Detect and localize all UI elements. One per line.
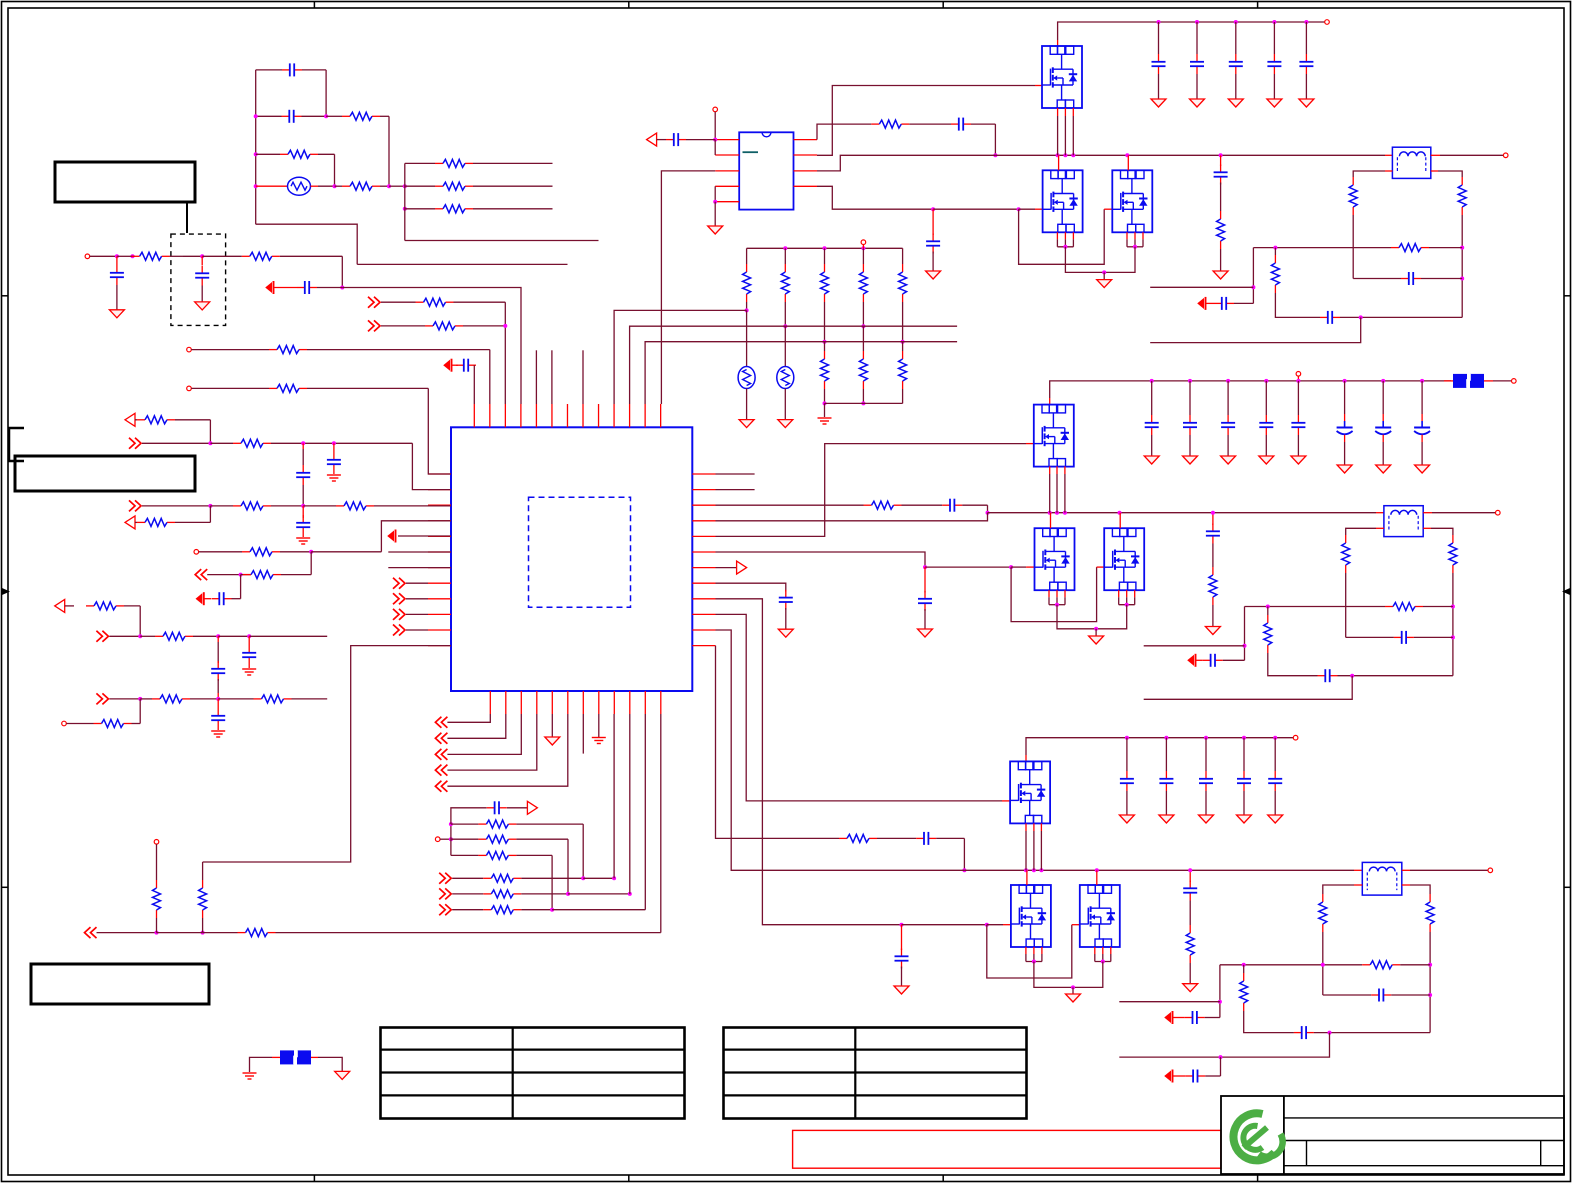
capacitor C gate3 + ground (901, 925, 903, 950)
resistor R s2 (451, 838, 479, 840)
phase2 fb tap down (1244, 607, 1246, 661)
dangling IC right rows 1-2 (716, 473, 755, 475)
phase3 fb tap down (1219, 965, 1221, 1018)
capacitor C a3 + ground (302, 506, 304, 518)
phase1 fb tap down (1252, 248, 1254, 304)
phase2 snubber chain (1212, 513, 1214, 525)
phase2 source bundles (1048, 590, 1050, 597)
phase1 snubber chain (1220, 155, 1222, 166)
port circle rail2 (1296, 372, 1301, 377)
resistor R b3 (152, 698, 160, 700)
connector chevron b3 (96, 693, 108, 704)
col2 thermistor + ground (784, 302, 786, 326)
wire pin6 to chevron (435, 781, 447, 792)
MOSFET module Q3 low (1112, 170, 1152, 232)
fuse F1 (1444, 380, 1453, 382)
wire to IC pin3 (504, 302, 506, 404)
capacitor C a1 (302, 443, 304, 449)
phase2 source return (1057, 605, 1127, 629)
phase1 top rail (1058, 22, 1325, 40)
phase3 gate link (987, 925, 1072, 978)
capacitor C b2 (217, 636, 219, 642)
resistor R b5 (94, 723, 102, 725)
capacitor C in1 (116, 256, 118, 265)
inductor L2 (1376, 512, 1384, 514)
divider resistors top row (746, 248, 748, 264)
chevron row A + resistor (439, 873, 451, 884)
resistor R osc out2 (405, 185, 435, 187)
wire to IC pin2 (489, 350, 491, 404)
connector chevron B (368, 320, 380, 331)
phase2 SW rail (988, 512, 1377, 514)
phase3 fb resistor mid (1243, 965, 1245, 973)
phase1 fb cap mid (1320, 316, 1328, 318)
IC pin stubs right (692, 473, 715, 475)
phase1 fb resistor mid (1274, 248, 1276, 255)
phase2 stub line A (1144, 645, 1245, 647)
input port J-in (85, 254, 90, 259)
phase1 high-side source stubs (1057, 108, 1059, 116)
fuse F2 bottom (243, 1072, 257, 1074)
resistor R p2 (269, 387, 277, 389)
wire to IC bottom pin12 (660, 714, 662, 933)
capacitor C drv + arrow (647, 133, 657, 146)
MOSFET module Q9 low (1080, 885, 1120, 947)
phase1 boot RC (817, 124, 871, 140)
port circle Pb (62, 721, 67, 726)
connector chevron in3 (129, 500, 141, 511)
phase2 bulk caps (1343, 379, 1347, 383)
wire L3 to IC pin13 (661, 171, 715, 404)
capacitor C sense-top + arrow (451, 808, 487, 824)
phase2 low module top stubs (1050, 513, 1052, 529)
phase1 SW rail (817, 155, 995, 171)
phase2 feedback left tap (1376, 527, 1384, 529)
resistor R chevB (425, 325, 433, 327)
IC pin stubs left (428, 473, 451, 475)
sense tie + capacitor C sense (266, 283, 272, 292)
dashed highlight box (171, 234, 226, 325)
ground (109, 310, 124, 318)
right edge fold arrow (1562, 588, 1570, 595)
phase1 fb resistor row (1253, 247, 1391, 249)
phase1 stub line B (1150, 317, 1361, 342)
IC bottom wires to left chevrons (435, 717, 447, 728)
driver pin stubs right (794, 139, 818, 141)
tie + capacitor C a4 (196, 594, 202, 603)
phase3 stub line A (1119, 1001, 1220, 1003)
capacitor C osc1 (282, 69, 290, 71)
IC thermal pad (dashed) (529, 497, 631, 607)
phase3 fb cap mid (1294, 1032, 1302, 1034)
gate driver U2 (739, 132, 793, 209)
phase2 tie cap A (1188, 656, 1194, 665)
earth on pin8 (598, 714, 600, 738)
phase2 LO gate wire (716, 552, 926, 567)
MOSFET module Q7 high (1010, 761, 1050, 823)
phase1 stub line A (1150, 286, 1253, 288)
port circle P1 (187, 347, 192, 352)
phase1 gate link (1019, 209, 1105, 264)
resistor R a1 (137, 419, 145, 421)
connector chevron in2 (129, 438, 141, 449)
ground (195, 302, 210, 310)
resistor R a6 (242, 551, 250, 553)
phase1 HO gate wire (817, 86, 1035, 156)
inductor L1 (1385, 154, 1392, 156)
phase1 source return (1065, 247, 1135, 273)
wire input to sense line (341, 256, 343, 287)
driver label mark (743, 151, 759, 153)
dangling IC left stubs (388, 551, 451, 553)
phase1 tie cap A (1198, 299, 1204, 308)
phase2 fb cap mid (1318, 675, 1326, 677)
col5 lower resistor (902, 302, 904, 342)
phase1 feedback right tap (1431, 170, 1438, 172)
capacitor C in2 (in dashed box) (201, 256, 203, 265)
resistor R a7 (243, 574, 251, 576)
connector chevron b2 (96, 631, 108, 642)
IC left chevron pins (393, 578, 405, 589)
resistor R a3 (233, 505, 241, 507)
port circle P3 (194, 550, 199, 555)
port circle divider (861, 240, 866, 245)
phase3 source bundles (1025, 947, 1027, 954)
company logo (1233, 1113, 1282, 1160)
wire to IC left pin row1 (428, 388, 451, 474)
dangling IC top stubs (535, 350, 537, 404)
divider top bus (747, 247, 903, 249)
inductor L3 (1354, 869, 1362, 871)
divider bottom bus (825, 402, 903, 404)
resistor R osc out1 (405, 162, 435, 164)
IC pin stubs bottom (489, 691, 491, 714)
phase3 source return (1034, 962, 1103, 988)
phase3 boot RC from IC pin (716, 646, 840, 839)
resistor R b4 (254, 698, 262, 700)
driver pin stubs left (715, 139, 739, 141)
phase3 fb resistor row (1220, 964, 1362, 966)
wire IC pin12 line (645, 342, 957, 404)
port circle + resistor R bl2 (154, 840, 159, 845)
phase2 feedback right tap (1423, 527, 1431, 529)
phase1 low module top stubs (1058, 155, 1060, 170)
IC pin stubs top (473, 404, 475, 427)
resistor R osc1 (342, 115, 350, 117)
phase1 input cap bank (1157, 20, 1161, 24)
connector chevron bottom-left (85, 927, 97, 938)
connector chevron in5 (195, 569, 207, 580)
phase1 source bundles (1056, 232, 1058, 239)
capacitor C a2 + earth (333, 443, 335, 452)
port circle P2 (187, 386, 192, 391)
resistor R bl1 (238, 932, 246, 934)
col3 lower resistor + earth (824, 302, 826, 342)
dangling pin7 (582, 714, 584, 754)
phase2 input cap bank (1150, 379, 1154, 383)
title block (1221, 1096, 1564, 1174)
resistor R p1 (269, 349, 277, 351)
wire to IC pin4 (342, 288, 521, 405)
wire L1-L2 tie (714, 140, 716, 155)
ground driver (714, 202, 716, 226)
resistor R a2 (233, 442, 241, 444)
MOSFET module Q6 low (1104, 528, 1144, 590)
resistor R osc out3 (405, 208, 435, 210)
phase2 boot RC from IC pin (716, 504, 864, 506)
phase2 stub line B (1144, 676, 1353, 700)
capacitor C b1 + earth (248, 636, 250, 645)
left edge revision bracket (9, 428, 24, 461)
chevron row C + resistor (439, 904, 451, 915)
note box 2 (15, 456, 195, 491)
phase3 tie cap A (1165, 1013, 1171, 1022)
resistor R osc3 (342, 185, 350, 187)
connector arrow b1 (55, 599, 65, 612)
chevron row B + resistor (439, 888, 451, 899)
phase2 top rail (1050, 381, 1451, 398)
capacitor C osc2 (282, 115, 290, 117)
wire to IC pin7 (357, 263, 567, 265)
resistor R b2 (155, 635, 163, 637)
MOSFET module Q8 low (1011, 885, 1051, 947)
port circle sense (435, 837, 440, 842)
resistor R chevA (416, 301, 424, 303)
resistor R s3 (451, 854, 479, 856)
phase3 high-side source stubs (1025, 823, 1027, 831)
resistor R a5 (137, 521, 145, 523)
phase2 fb resistor mid (1267, 607, 1269, 616)
capacitor C gate2 + ground (924, 567, 926, 592)
wire to IC left pin row4 (381, 521, 451, 552)
phase1 feedback left tap (1385, 170, 1392, 172)
resistor R s1 (451, 823, 479, 825)
resistor R in1 (133, 255, 136, 257)
revision table 1 (381, 1028, 685, 1119)
phase3 feedback left tap (1354, 884, 1362, 886)
MOSFET module Q2 low (1043, 170, 1083, 232)
wire osc bus vertical (404, 163, 406, 240)
port circle driver VCC (713, 107, 718, 112)
wire IC pin10 to divider col1 (614, 310, 747, 404)
wire L4-L5 tie (714, 186, 716, 201)
oscillator cluster wires (255, 70, 257, 224)
phase3 top rail (1026, 738, 1293, 755)
phase3 low module top stubs (1026, 870, 1028, 885)
crystal Y1 (288, 177, 311, 195)
capacitor C b3 + earth (217, 699, 219, 708)
wire to IC pin9 (405, 240, 599, 242)
wire IC row12 to lower-left resistor (203, 646, 451, 862)
phase2 HO gate wire (716, 444, 1027, 537)
note box 1 (55, 162, 195, 202)
note box 1 pointer (186, 202, 188, 233)
tie cap at IC pin1 top (444, 361, 450, 370)
resistor R in2 (242, 255, 250, 257)
note box 3 (31, 964, 209, 1004)
phase2 fb cap row (1346, 636, 1394, 638)
wire to IC left pin row2 (412, 443, 451, 489)
phase3 snubber chain (1189, 870, 1191, 882)
phase3 LO gate wire (716, 599, 902, 925)
phase3 fb cap row (1323, 994, 1371, 996)
phase1 LO gate wire (817, 186, 933, 209)
controller IC U1 (451, 427, 692, 691)
phase3 tie cap B (1220, 1057, 1222, 1076)
phase2 SW wire from IC (716, 513, 988, 521)
capacitor C gate1 + ground (932, 209, 934, 235)
MOSFET module Q4 high (1034, 405, 1074, 467)
resistor R osc2 (280, 153, 288, 155)
phase2 gate link (1011, 567, 1097, 622)
connector chevron A (368, 297, 380, 308)
IC right row8 cap to ground (716, 583, 786, 591)
phase3 feedback right tap (1402, 884, 1410, 886)
MOSFET module Q1 high (1042, 46, 1082, 108)
phase3 stub line B (1119, 1033, 1329, 1058)
resistor R bl3 (202, 862, 204, 880)
phase3 SW wire from IC (716, 630, 965, 870)
red annotation rectangle (793, 1130, 1221, 1168)
ground on pin5 (551, 714, 553, 737)
phase3 input cap bank (1125, 736, 1129, 740)
wire IC pin11 line (630, 326, 958, 404)
connector arrow in4 (125, 516, 135, 529)
resistor R b1 (86, 605, 94, 607)
phase3 HO gate wire (716, 614, 1003, 801)
phase2 fb resistor row (1245, 606, 1386, 608)
col1 thermistor + ground (746, 302, 748, 310)
wire osc bottom (256, 224, 358, 264)
phase1 fb cap row (1353, 278, 1401, 280)
connector arrow in1 (125, 413, 135, 426)
IC right arrow pin row7 (716, 567, 737, 569)
col4 lower resistor (862, 302, 864, 326)
phase3 SW rail (964, 869, 1354, 871)
phase2 high-side source stubs (1049, 466, 1051, 474)
left edge fold arrow (2, 588, 10, 595)
revision table 2 (724, 1028, 1027, 1119)
MOSFET module Q5 low (1035, 528, 1075, 590)
resistor R a4 (336, 505, 344, 507)
tie at IC row5 (388, 532, 394, 541)
